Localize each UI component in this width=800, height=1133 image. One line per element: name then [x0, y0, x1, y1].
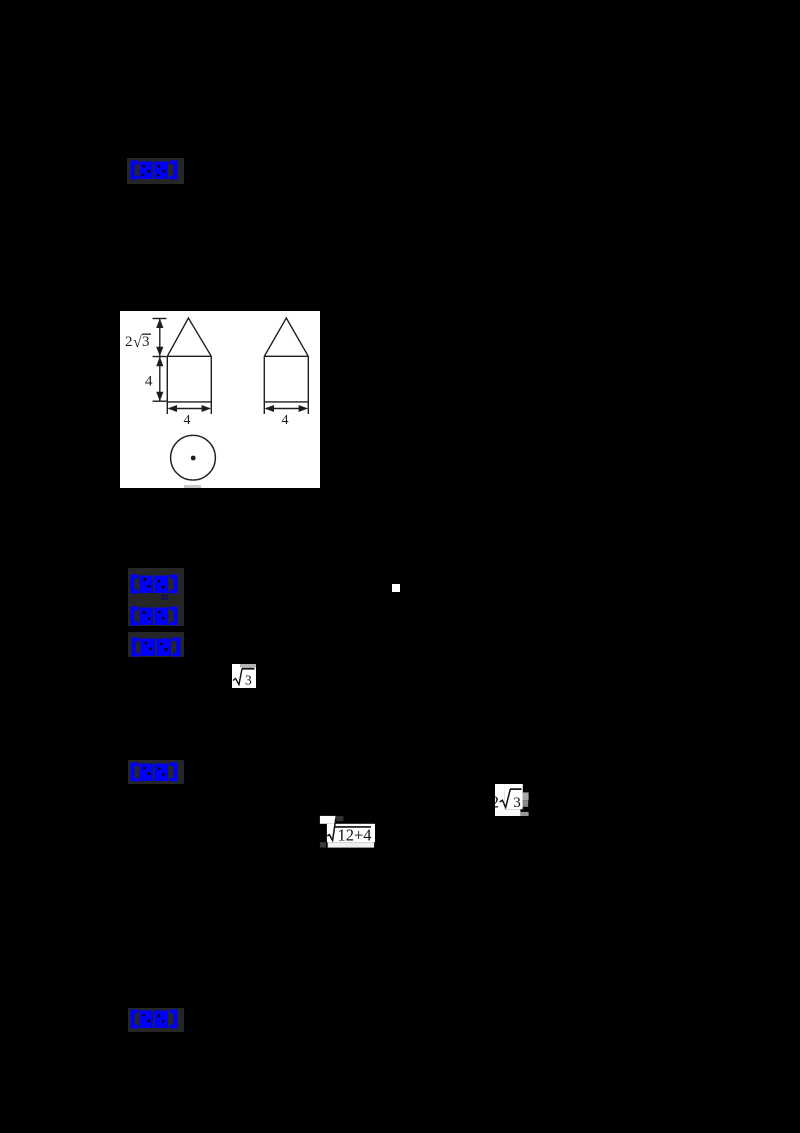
svg-text:3: 3	[142, 334, 150, 350]
svg-text:3: 3	[245, 673, 252, 688]
svg-text:√: √	[133, 334, 142, 351]
svg-text:12+4: 12+4	[338, 826, 372, 845]
svg-text:4: 4	[184, 413, 191, 428]
svg-text:,: ,	[522, 797, 526, 813]
svg-text:2: 2	[495, 793, 499, 812]
svg-text:2: 2	[125, 334, 133, 350]
svg-text:4: 4	[282, 413, 289, 428]
svg-text:3: 3	[513, 795, 521, 811]
svg-text:4: 4	[145, 374, 153, 390]
